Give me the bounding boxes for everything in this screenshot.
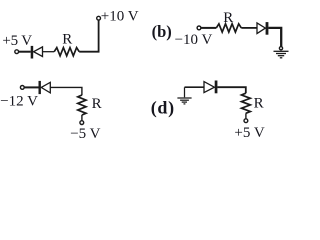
wire	[185, 86, 205, 88]
svg-text:−5 V: −5 V	[70, 126, 100, 142]
wire	[81, 115, 83, 121]
resistor R (a)	[54, 48, 79, 56]
wire	[217, 87, 245, 93]
terminal node -12 V	[20, 86, 24, 90]
terminal node +5 V	[15, 50, 19, 54]
diode D2 cathode bar	[266, 22, 269, 35]
svg-text:R: R	[254, 95, 264, 111]
ground node circle (b)	[279, 47, 282, 50]
wire	[43, 51, 55, 53]
ground (d)	[177, 87, 191, 104]
diode D1 cathode bar	[31, 46, 34, 59]
wire	[19, 51, 31, 53]
terminal node -10 V	[197, 26, 201, 30]
svg-text:R: R	[92, 96, 102, 112]
diode D4 cathode bar	[215, 81, 218, 94]
wire	[245, 113, 247, 118]
diode D3	[41, 82, 50, 93]
wire	[24, 86, 38, 88]
ground (b)	[274, 51, 289, 58]
resistor R (d)	[242, 93, 251, 113]
svg-text:(d): (d)	[151, 98, 175, 119]
wire	[79, 20, 98, 52]
svg-text:R: R	[223, 10, 233, 26]
diode D2	[257, 23, 265, 34]
diode D4	[204, 82, 214, 93]
wire	[268, 28, 281, 47]
svg-text:R: R	[62, 31, 72, 47]
resistor R (c)	[78, 95, 86, 115]
wire	[201, 27, 216, 29]
wire	[50, 87, 82, 95]
svg-text:+10 V: +10 V	[101, 9, 139, 25]
diode D1	[34, 47, 43, 57]
resistor R (b)	[216, 24, 241, 32]
terminal node +5 V (d)	[244, 119, 248, 123]
svg-text:(b): (b)	[152, 22, 172, 41]
wire	[241, 27, 257, 29]
svg-text:−12 V: −12 V	[0, 94, 38, 110]
terminal node -5 V	[80, 121, 84, 125]
svg-text:+5 V: +5 V	[234, 125, 264, 141]
svg-text:−10 V: −10 V	[175, 32, 213, 48]
svg-text:+5 V: +5 V	[2, 33, 32, 49]
diode D3 cathode bar	[39, 81, 41, 94]
terminal node +10 V	[97, 16, 101, 20]
